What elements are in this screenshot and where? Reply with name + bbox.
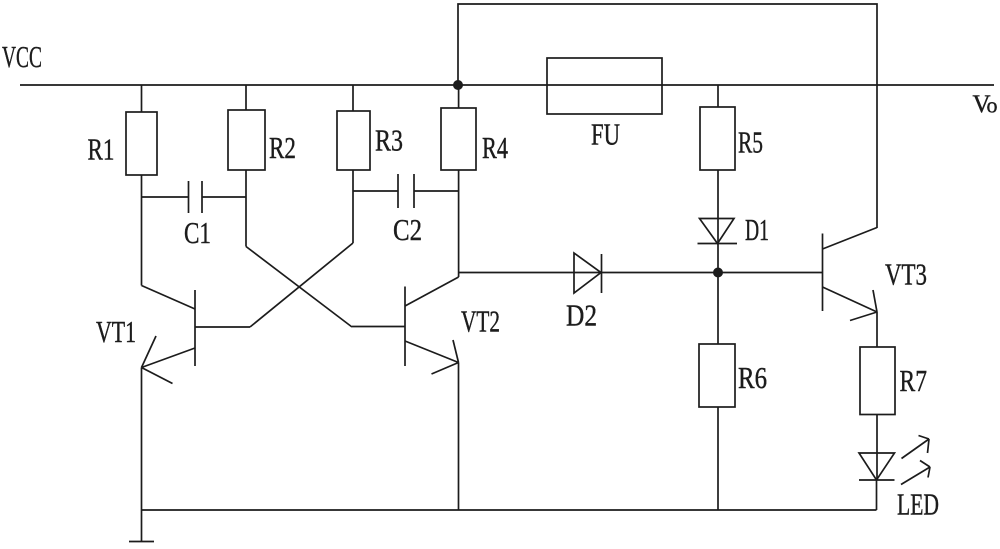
wire cross-coupling R2 to VT2 base xyxy=(246,247,352,328)
diode D1 xyxy=(700,219,735,244)
ground xyxy=(141,510,143,541)
diode D2 xyxy=(574,253,601,293)
wire VT1 emitter down xyxy=(141,368,143,511)
svg-text:R5: R5 xyxy=(738,125,763,160)
svg-text:VCC: VCC xyxy=(2,39,42,74)
resistor R5 xyxy=(717,85,719,107)
svg-text:R6: R6 xyxy=(738,360,767,395)
svg-text:R3: R3 xyxy=(375,123,403,158)
svg-text:VT2: VT2 xyxy=(461,304,500,339)
transistor VT1 xyxy=(194,290,196,366)
resistor R7 xyxy=(860,347,895,415)
wire base line to VT3 xyxy=(459,272,823,274)
wire top feedback loop xyxy=(458,4,877,228)
svg-text:R4: R4 xyxy=(482,130,508,165)
svg-text:LED: LED xyxy=(897,487,939,522)
node junction at VCC/R4 xyxy=(453,80,463,90)
svg-text:C2: C2 xyxy=(393,212,422,247)
svg-text:R2: R2 xyxy=(269,130,296,165)
wire bottom rail xyxy=(142,509,877,511)
LED diode xyxy=(859,453,895,480)
wire cross-coupling R4 to VT2 collector xyxy=(405,277,459,306)
svg-text:R1: R1 xyxy=(88,132,115,167)
node junction D1/R6 xyxy=(713,268,723,278)
LED arrow 2 xyxy=(901,467,930,485)
resistor R1 xyxy=(141,85,143,112)
capacitor C1 xyxy=(142,196,189,198)
svg-text:o: o xyxy=(987,93,998,118)
wire cross-coupling R3 to VT1 base xyxy=(250,243,353,327)
svg-text:D2: D2 xyxy=(566,298,597,333)
wire VT3 emitter to R7 xyxy=(876,312,878,347)
svg-text:VT1: VT1 xyxy=(96,314,136,349)
svg-text:R7: R7 xyxy=(900,363,928,398)
transistor VT2 xyxy=(404,287,406,367)
svg-text:FU: FU xyxy=(591,117,620,152)
fuse FU xyxy=(547,58,662,114)
svg-text:D1: D1 xyxy=(745,212,769,247)
svg-text:VT3: VT3 xyxy=(885,257,927,292)
resistor R2 xyxy=(245,85,247,110)
svg-text:C1: C1 xyxy=(184,215,211,250)
wire VT2 emitter down xyxy=(458,363,460,511)
resistor R3 xyxy=(352,85,354,111)
LED arrow 1 xyxy=(902,439,930,459)
wire VCC rail xyxy=(20,84,994,86)
resistor R6 xyxy=(717,273,719,345)
transistor VT3 xyxy=(822,234,824,312)
resistor R4 xyxy=(458,85,460,108)
capacitor C2 xyxy=(353,190,398,192)
wire cross-coupling R1 to VT1 collector xyxy=(142,286,196,310)
